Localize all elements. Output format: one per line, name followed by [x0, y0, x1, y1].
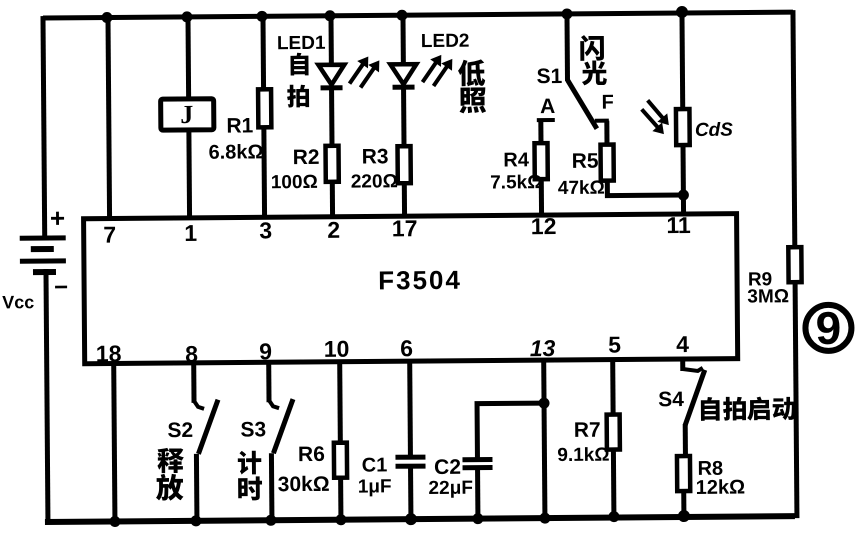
wire S2 lower (to rail) — [194, 454, 200, 523]
switch S3 blade — [273, 399, 293, 453]
svg-text:F: F — [601, 92, 613, 114]
resistor R3 — [398, 146, 411, 183]
node bottom rail C2 — [472, 513, 483, 524]
node bottom rail pin18 — [109, 516, 120, 527]
node top rail pin3 — [256, 11, 267, 22]
wire pin 4 (IC to S4) — [680, 359, 685, 371]
wire S3 upper (pin 9 down) — [266, 362, 271, 402]
svg-text:LED1: LED1 — [277, 33, 326, 54]
svg-text:9: 9 — [259, 338, 272, 364]
LED2 light arrows — [422, 60, 438, 82]
wire pin 1 upper (rail to relay J) — [185, 17, 191, 99]
resistor R7 — [607, 415, 620, 450]
svg-text:22μF: 22μF — [428, 478, 473, 499]
wire pin 17 lower (R3 to IC) — [402, 183, 407, 216]
node C2/pin13 junction — [538, 398, 549, 409]
svg-text:3: 3 — [259, 217, 272, 243]
svg-text:6.8kΩ: 6.8kΩ — [208, 141, 263, 163]
svg-text:30kΩ: 30kΩ — [278, 473, 330, 496]
svg-text:S3: S3 — [240, 418, 266, 441]
svg-text:S4: S4 — [658, 388, 684, 411]
label S4 caption pai2 — [723, 397, 746, 421]
node bottom rail S2 — [190, 515, 201, 526]
svg-text:7: 7 — [103, 221, 116, 247]
svg-text:100Ω: 100Ω — [271, 172, 318, 193]
node bottom rail R8 — [678, 510, 690, 522]
svg-text:12kΩ: 12kΩ — [696, 477, 746, 499]
wire pin 1 lower (relay J to IC) — [186, 129, 192, 218]
svg-text:4: 4 — [676, 331, 689, 357]
svg-text:R7: R7 — [574, 419, 601, 442]
svg-text:10: 10 — [324, 336, 350, 362]
wire pin 12 (R4 to IC) — [539, 179, 544, 215]
switch S2 blade — [198, 400, 218, 454]
svg-text:R2: R2 — [293, 146, 320, 169]
label S3 caption ji — [238, 451, 262, 475]
wire C2 top to pin13 junction — [477, 403, 544, 460]
node top rail CdS — [676, 6, 688, 18]
LED1 (self-timer indicator) — [318, 65, 344, 85]
label LED2 caption di — [458, 59, 485, 86]
switch S1 blade — [567, 80, 596, 129]
svg-text:R3: R3 — [362, 145, 389, 168]
wire S4 hook (pin 4 contact) — [683, 368, 703, 371]
wire S4 lower (to R8) — [683, 424, 688, 456]
relay J — [161, 99, 214, 130]
svg-text:18: 18 — [96, 340, 122, 366]
wire right branch (top rail to R9) — [793, 10, 795, 249]
wire pin 3 upper (rail to R1) — [260, 16, 266, 89]
svg-text:R5: R5 — [572, 150, 599, 173]
svg-text:S2: S2 — [167, 419, 193, 442]
resistor R1 — [258, 89, 271, 127]
wire S2 upper (pin 8 down) — [191, 363, 196, 403]
svg-text:R6: R6 — [298, 443, 325, 466]
wire pin 2 mid (LED1 to R2) — [329, 88, 334, 146]
resistor R8 — [677, 456, 690, 491]
svg-text:1: 1 — [184, 220, 197, 246]
wire CdS to junction — [681, 145, 686, 197]
LED2 (low-light indicator) — [390, 64, 416, 84]
LED1 light arrows — [349, 61, 365, 83]
label S4 caption dong — [773, 397, 796, 420]
svg-text:J: J — [180, 100, 193, 129]
switch S1 contact A bar — [537, 118, 555, 122]
svg-text:R1: R1 — [226, 114, 253, 137]
resistor R6 — [334, 443, 347, 478]
wire right branch (R9 to bottom rail) — [795, 280, 797, 518]
node top rail S1 — [561, 8, 572, 19]
wire pin 7 — [108, 18, 110, 219]
switch S1 contact F bar — [595, 119, 609, 123]
node CdS/R5/pin11 junction — [678, 189, 689, 200]
svg-text:1μF: 1μF — [358, 476, 392, 497]
CdS light arrows — [648, 100, 665, 121]
figure number 9 (circled) — [805, 305, 851, 351]
wire S3 lower (to rail) — [269, 453, 275, 522]
node bottom rail S3 — [265, 515, 276, 526]
svg-text:+: + — [50, 203, 65, 233]
IC U1 F3504 box — [84, 214, 738, 364]
battery B1 Vcc — [20, 235, 66, 240]
wire pin 18 — [114, 364, 115, 522]
svg-text:11: 11 — [666, 212, 691, 238]
wire pin 17 mid (LED2 to R3) — [401, 87, 406, 146]
node bottom rail C1 — [405, 513, 417, 525]
label S3 caption shi2 — [238, 476, 262, 500]
wire C2 lower (to rail) — [475, 468, 480, 521]
svg-text:220Ω: 220Ω — [351, 171, 398, 192]
resistor R2 — [326, 146, 339, 182]
label LED1 caption pai — [287, 85, 309, 108]
node top rail pin1 — [181, 11, 192, 22]
wire pin 11 (CdS junction to IC) — [681, 195, 686, 214]
svg-text:3MΩ: 3MΩ — [747, 286, 789, 307]
node bottom rail R7 — [608, 511, 619, 522]
node bottom rail pin13 — [539, 513, 550, 524]
svg-text:9.1kΩ: 9.1kΩ — [557, 445, 609, 466]
wire pin 17 upper (rail to LED2) — [400, 15, 405, 64]
label S2 caption fang — [156, 474, 184, 501]
label S2 caption shi — [157, 448, 184, 474]
wire S1 pole (rail down) — [564, 12, 570, 81]
svg-text:6: 6 — [400, 335, 413, 361]
resistor R5 — [601, 145, 614, 181]
switch S4 blade — [685, 370, 705, 425]
label S4 caption zi2 — [701, 397, 720, 421]
svg-text:13: 13 — [530, 335, 556, 361]
svg-text:17: 17 — [392, 215, 418, 241]
wire pin 3 lower (R1 to IC) — [261, 127, 267, 217]
svg-text:7.5kΩ: 7.5kΩ — [490, 172, 542, 193]
wire R7 lower (to rail) — [611, 449, 617, 520]
wire left supply (battery +) — [43, 16, 45, 238]
svg-text:F3504: F3504 — [378, 265, 462, 296]
wire left supply lower (battery -) — [46, 269, 48, 524]
resistor R9 — [788, 247, 801, 282]
wire pin 5 (IC to R7) — [610, 360, 615, 415]
svg-text:Vcc: Vcc — [2, 292, 34, 312]
label S1 caption shan — [580, 35, 604, 61]
node top rail pin17 — [396, 10, 407, 21]
label S1 caption guang — [582, 60, 607, 85]
wire pin 13 — [544, 360, 545, 518]
wire top supply rail — [43, 12, 793, 18]
svg-text:5: 5 — [608, 332, 621, 358]
svg-text:CdS: CdS — [695, 120, 733, 141]
wire pin 10 (IC to R6) — [337, 362, 343, 443]
capacitor C1 — [395, 455, 425, 460]
node bottom rail R6 — [335, 514, 346, 525]
svg-text:−: − — [54, 274, 68, 301]
wire C1 lower (to rail) — [408, 466, 413, 521]
svg-text:12: 12 — [531, 213, 557, 239]
resistor R4 — [534, 143, 547, 179]
svg-text:LED2: LED2 — [421, 31, 470, 52]
svg-text:C1: C1 — [362, 454, 388, 476]
svg-text:A: A — [540, 95, 555, 118]
svg-text:2: 2 — [327, 217, 340, 243]
wire R5 bottom to CdS junction — [607, 180, 683, 196]
wire pin 6 (IC to C1) — [407, 361, 413, 457]
node top rail pin2 — [324, 10, 335, 21]
label S4 caption qi — [747, 397, 770, 421]
svg-text:S1: S1 — [537, 65, 563, 88]
capacitor C2 — [462, 457, 492, 462]
wire R6 lower (to rail) — [338, 478, 343, 522]
wire pin 2 upper (rail to LED1) — [328, 16, 333, 65]
photoresistor CdS — [676, 109, 690, 145]
svg-text:9: 9 — [815, 302, 841, 354]
wire pin 2 lower (R2 to IC) — [330, 181, 335, 217]
node top rail pin7 — [101, 12, 112, 23]
wire bottom ground rail — [45, 516, 795, 522]
wire R8 lower (to rail) — [681, 491, 686, 519]
wire CdS (rail down) — [679, 11, 685, 109]
svg-text:R4: R4 — [503, 149, 530, 171]
svg-text:47kΩ: 47kΩ — [558, 178, 605, 199]
label LED2 caption zhao — [459, 87, 486, 113]
svg-text:C2: C2 — [434, 456, 461, 479]
label LED1 caption zi — [290, 53, 308, 76]
